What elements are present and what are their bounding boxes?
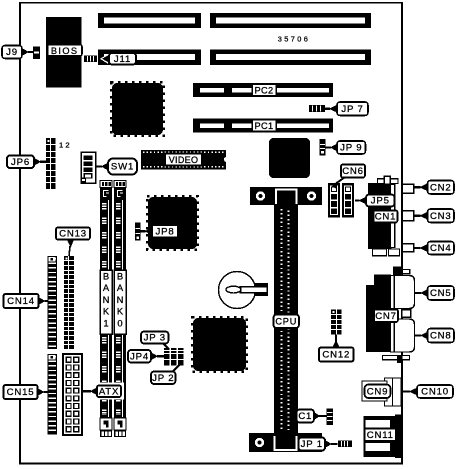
svg-text:CN10: CN10	[421, 387, 449, 398]
svg-text:CN1: CN1	[375, 212, 397, 223]
ISA slot bar row2 left (J11)	[98, 50, 201, 66]
CN2 connector	[402, 184, 414, 193]
CN15 connector strip	[48, 354, 58, 435]
PCI slot PC1	[193, 119, 333, 133]
svg-text:CN13: CN13	[59, 229, 87, 240]
svg-text:K: K	[103, 306, 110, 317]
label CN2	[414, 186, 421, 188]
CN1 bottom boxes	[373, 249, 387, 256]
svg-text:JP6: JP6	[11, 157, 30, 168]
DIMM slot BANK1	[100, 181, 112, 188]
CPU slot body	[274, 205, 298, 433]
chip U2 (north bridge)	[269, 138, 310, 178]
CN13 header strip	[64, 256, 74, 349]
label JP6	[40, 161, 46, 163]
JP9 jumper	[320, 139, 326, 156]
label C1	[319, 415, 327, 417]
svg-text:B: B	[103, 271, 109, 282]
svg-text:ATX: ATX	[99, 386, 119, 397]
svg-text:JP 7: JP 7	[341, 104, 363, 115]
label ATX	[94, 383, 125, 400]
svg-text:JP5: JP5	[371, 196, 390, 207]
svg-text:1: 1	[103, 317, 108, 328]
svg-text:CN12: CN12	[322, 350, 350, 361]
svg-text:K: K	[117, 306, 124, 317]
label CN7	[374, 310, 398, 323]
svg-text:CN11: CN11	[367, 430, 394, 441]
svg-text:JP 9: JP 9	[340, 143, 362, 154]
svg-text:PC2: PC2	[254, 85, 273, 95]
label JP1	[331, 443, 338, 445]
label JP9	[326, 146, 332, 148]
svg-text:CN14: CN14	[7, 296, 35, 307]
CN13 pointer	[67, 240, 74, 248]
svg-text:CN3: CN3	[430, 211, 452, 222]
label CN15	[44, 391, 48, 393]
battery BT1	[219, 272, 256, 309]
QFP chip U1	[111, 82, 164, 136]
label CN5	[415, 292, 422, 294]
svg-text:CN5: CN5	[430, 288, 452, 299]
capacitor C1	[327, 409, 334, 426]
svg-text:CN7: CN7	[375, 311, 397, 322]
J11 ribbed connector	[84, 56, 97, 63]
SW1 dip switch	[81, 152, 96, 183]
CN1 connector block	[368, 183, 392, 249]
label PC1	[252, 120, 276, 132]
svg-text:A: A	[103, 282, 110, 293]
label CN13	[56, 228, 90, 240]
label JP2	[172, 365, 180, 373]
svg-text:1 2: 1 2	[59, 141, 70, 150]
label CN10	[402, 390, 410, 392]
svg-text:C1: C1	[298, 411, 312, 422]
CN7 connector block	[366, 275, 391, 353]
CPU slot bottom bar	[249, 433, 322, 452]
label CN4	[414, 247, 421, 249]
jumper block JP2-JP4	[164, 348, 170, 366]
label CN9	[365, 385, 391, 399]
label JP7	[325, 108, 330, 110]
label CN1	[374, 211, 398, 223]
ISA slot bar row2 right	[210, 50, 371, 66]
CPU slot top bar	[250, 187, 322, 205]
CN3 connector	[402, 211, 414, 221]
svg-text:B: B	[117, 271, 123, 282]
label PC2	[252, 84, 276, 96]
label J9	[28, 51, 33, 53]
CN9 connector	[385, 378, 402, 406]
label VIDEO	[165, 154, 202, 166]
svg-text:CN9: CN9	[367, 386, 389, 397]
label CN14	[45, 300, 48, 302]
CN12 header strip	[331, 310, 342, 335]
CN8 bottom tab	[383, 356, 410, 360]
svg-text:JP4: JP4	[130, 351, 149, 362]
JP8 jumper strip	[135, 223, 141, 241]
svg-text:CPU: CPU	[275, 316, 297, 326]
svg-text:CN2: CN2	[430, 182, 452, 193]
label JP8	[141, 230, 146, 232]
CN7 top step	[393, 267, 403, 281]
label CN6	[341, 165, 365, 178]
svg-text:JP 1: JP 1	[301, 439, 323, 450]
svg-text:BIOS: BIOS	[51, 46, 79, 56]
CN1 top boxes	[378, 179, 399, 184]
svg-text:A: A	[117, 282, 124, 293]
label CN11	[365, 429, 397, 442]
CN6 header A	[328, 183, 340, 218]
DIMM slot BANK0	[114, 181, 126, 188]
CN8 D-sub body	[391, 319, 415, 352]
svg-text:JP8: JP8	[156, 227, 175, 238]
CN5 top tab	[402, 270, 410, 274]
svg-text:35706: 35706	[278, 34, 311, 43]
JP7 ribbed connector	[309, 105, 325, 112]
PCI slot PC2	[193, 83, 333, 97]
QFP chip U4	[192, 317, 247, 372]
BIOS chip	[46, 17, 82, 88]
label JP4	[157, 355, 164, 357]
svg-text:SW1: SW1	[111, 162, 134, 173]
CN6 header B	[342, 183, 354, 218]
CN11 connector	[364, 416, 398, 457]
CN5-CN8 middle tab	[402, 310, 411, 318]
label BIOS	[48, 45, 83, 57]
CN4 connector	[402, 244, 414, 252]
svg-text:JP 3: JP 3	[144, 333, 166, 344]
CN14 connector strip	[48, 256, 58, 349]
svg-text:CN6: CN6	[342, 166, 364, 177]
CN5 D-sub body	[391, 276, 415, 309]
ISA slot bar row1 left	[98, 13, 201, 28]
svg-text:N: N	[117, 294, 124, 305]
svg-text:CN15: CN15	[7, 387, 35, 398]
svg-text:CN8: CN8	[430, 331, 452, 342]
label CN8	[415, 334, 422, 336]
label J11	[100, 54, 108, 64]
JP1 ribbed connector	[338, 441, 352, 448]
label CN12	[319, 348, 354, 362]
svg-text:JP 2: JP 2	[152, 373, 174, 384]
svg-text:J11: J11	[114, 54, 131, 65]
CN6 pointer	[336, 177, 345, 184]
svg-text:CN4: CN4	[430, 243, 452, 254]
connector J9 component	[33, 47, 40, 60]
svg-text:N: N	[103, 294, 110, 305]
ISA slot bar row1 right	[210, 13, 371, 28]
JP6 header strip	[46, 138, 56, 189]
svg-text:PC1: PC1	[254, 121, 273, 131]
svg-text:0: 0	[117, 317, 122, 328]
label SW1	[96, 165, 103, 167]
ATX power connector	[63, 354, 82, 435]
label JP3	[162, 343, 169, 350]
CN12 pointer	[335, 335, 337, 343]
svg-text:VIDEO: VIDEO	[169, 155, 199, 165]
svg-text:J9: J9	[6, 47, 18, 58]
label JP5	[355, 199, 360, 201]
VIDEO chip	[141, 150, 226, 170]
label CN3	[414, 215, 421, 217]
label CPU	[274, 315, 300, 329]
chip U3 with JP8	[147, 196, 198, 250]
